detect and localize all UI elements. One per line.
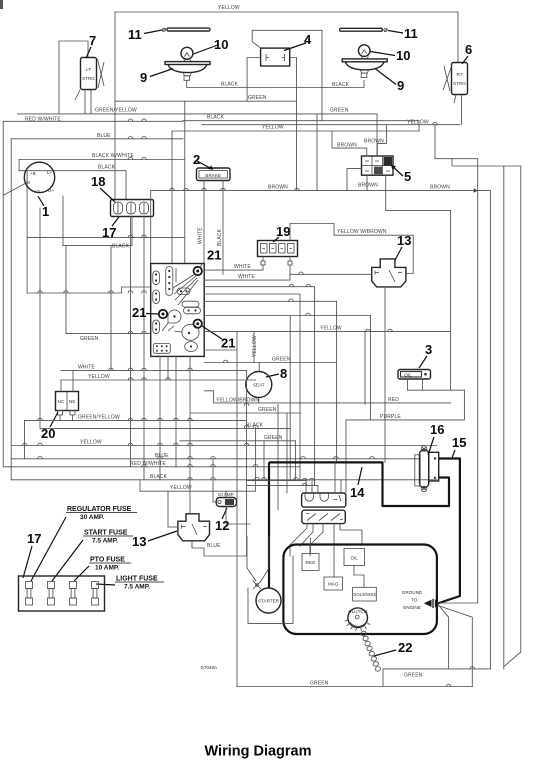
svg-text:10 AMP.: 10 AMP. <box>95 565 119 572</box>
fuse block 17 <box>19 576 105 611</box>
svg-text:1: 1 <box>42 204 49 219</box>
leader 8 <box>266 374 279 377</box>
svg-text:REGULATOR FUSE: REGULATOR FUSE <box>67 506 132 513</box>
headlamp 9 right <box>342 59 387 78</box>
svg-text:RED W/WHITE: RED W/WHITE <box>130 461 166 467</box>
svg-text:7.5 AMP.: 7.5 AMP. <box>92 538 118 545</box>
svg-text:8: 8 <box>280 366 287 381</box>
svg-text:RED W/WHITE: RED W/WHITE <box>25 117 61 123</box>
svg-text:13: 13 <box>397 233 411 248</box>
leader 4 <box>284 43 306 51</box>
svg-text:START FUSE: START FUSE <box>84 530 128 537</box>
svg-text:NC: NC <box>58 399 65 404</box>
svg-text:M: M <box>26 180 30 185</box>
wire band y286 <box>204 286 314 288</box>
connector 18/17 <box>111 200 154 217</box>
wire brown band <box>151 190 478 192</box>
wire green upper band <box>115 100 297 102</box>
wire ground fan down right 1 <box>438 605 449 669</box>
fuse label PTO <box>74 557 131 582</box>
svg-text:YELLOW: YELLOW <box>218 5 240 11</box>
wire funnel above 4 <box>252 30 322 48</box>
svg-text:GREEN: GREEN <box>404 673 423 679</box>
svg-text:11: 11 <box>404 26 418 41</box>
wire coil 22 spring <box>361 631 381 671</box>
wire bottom green B <box>237 686 472 688</box>
connector 4 <box>261 48 290 66</box>
svg-text:16: 16 <box>430 422 444 437</box>
wire reg feed <box>310 538 312 554</box>
svg-text:BROWN: BROWN <box>358 183 378 189</box>
svg-text:ENGINE: ENGINE <box>403 605 421 610</box>
leader 11 left <box>144 30 162 34</box>
wire relay top pins <box>305 481 307 493</box>
bulb 10 left <box>181 47 193 61</box>
leader 10 right <box>371 52 396 56</box>
corner mark <box>0 0 3 9</box>
wire starter frame <box>248 556 293 623</box>
svg-text:4: 4 <box>304 32 312 47</box>
leader 12 <box>222 508 227 519</box>
cam blob <box>162 310 181 331</box>
svg-text:YELLOW: YELLOW <box>407 119 429 125</box>
box REG <box>302 554 319 571</box>
wire white band lower <box>61 369 247 371</box>
svg-text:BLACK: BLACK <box>217 228 223 246</box>
connector mid right slots <box>177 288 201 314</box>
box MAG <box>324 577 343 590</box>
svg-text:LT: LT <box>86 67 91 72</box>
wire band y294 <box>204 293 300 295</box>
svg-text:2: 2 <box>193 152 200 167</box>
wire 20 bottom pins <box>59 415 61 421</box>
svg-text:18: 18 <box>91 174 105 189</box>
svg-text:YELLOW: YELLOW <box>252 335 258 357</box>
wire black band y245 <box>63 245 132 247</box>
svg-text:YELLOW W/BROWN: YELLOW W/BROWN <box>337 229 387 235</box>
svg-text:GROUND: GROUND <box>402 590 423 595</box>
leader 22 <box>374 650 396 656</box>
sensor 13 upper <box>372 259 406 287</box>
svg-text:BROWN: BROWN <box>337 143 357 149</box>
engine block outline <box>283 545 437 635</box>
svg-text:GREEN/YELLOW: GREEN/YELLOW <box>78 415 120 421</box>
svg-text:BLACK: BLACK <box>98 165 116 171</box>
wire band y293 <box>27 287 151 293</box>
wire crossover humps <box>22 119 474 687</box>
bolt 21 left <box>159 310 167 318</box>
svg-text:GREEN/YELLOW: GREEN/YELLOW <box>95 108 137 114</box>
wire white band 2 <box>204 279 290 281</box>
svg-text:13: 13 <box>132 534 146 549</box>
wire module bottom stubs <box>159 356 161 479</box>
regulator 16 <box>415 446 439 492</box>
relay top connector <box>302 493 346 507</box>
svg-text:REG: REG <box>306 560 316 565</box>
wire bus x255 <box>255 428 257 492</box>
wire purple band <box>346 390 464 420</box>
svg-text:L+: L+ <box>47 170 53 175</box>
wire bus x264 <box>263 441 265 480</box>
svg-text:BLACK: BLACK <box>150 474 168 480</box>
svg-text:RED: RED <box>388 397 399 403</box>
svg-text:NE: NE <box>69 399 75 404</box>
svg-text:12: 12 <box>215 518 229 533</box>
wire yellow band y445 <box>11 445 437 447</box>
wire right lamp stem <box>322 80 364 87</box>
svg-text:7: 7 <box>89 33 96 48</box>
svg-text:21: 21 <box>221 336 235 351</box>
bolt 21 top <box>194 267 202 275</box>
wire right bus 2 <box>452 159 504 669</box>
wire mid verticals <box>110 246 112 371</box>
svg-text:BLACK: BLACK <box>332 82 350 88</box>
wire heavy to starter <box>268 462 270 588</box>
wire red w/white upper <box>3 120 183 122</box>
headlight LT STRG loop wire <box>59 41 88 114</box>
wire 4 left pin to green <box>247 58 261 102</box>
leader 5 <box>392 166 403 176</box>
svg-text:GREEN: GREEN <box>272 357 291 363</box>
wire green band to controller <box>66 333 151 335</box>
wire 4 right pin <box>290 58 297 191</box>
svg-text:A3: A3 <box>34 189 40 194</box>
wire 12 stubs <box>225 491 227 497</box>
svg-text:7.5 AMP.: 7.5 AMP. <box>124 584 150 591</box>
svg-text:SEAT: SEAT <box>253 383 265 388</box>
svg-text:CLUTCH: CLUTCH <box>348 609 367 614</box>
vertical drops x172 x184 <box>171 131 173 264</box>
svg-text:3: 3 <box>425 342 432 357</box>
wire black band <box>18 160 20 171</box>
wire oil bottom <box>408 389 465 391</box>
wire bus x246 <box>246 370 248 556</box>
wire bottom green A <box>383 668 490 670</box>
wire blue band <box>11 138 183 140</box>
svg-text:WHITE: WHITE <box>78 364 95 370</box>
leader 13 lower <box>148 531 177 541</box>
leader 9 right <box>375 69 396 85</box>
fuse label REGULATOR <box>31 506 137 581</box>
svg-text:5: 5 <box>404 169 411 184</box>
wire black band y479 <box>11 479 437 481</box>
leader 9 left <box>150 69 173 77</box>
connector slots left column <box>153 271 160 334</box>
wire connector bottom drops <box>130 217 132 467</box>
svg-text:17: 17 <box>102 225 116 240</box>
leader 14 <box>358 467 362 485</box>
module main controller <box>151 264 205 357</box>
ground lug arrow <box>424 599 436 608</box>
svg-text:BLACK: BLACK <box>112 244 130 250</box>
box SOLENOID <box>353 587 378 601</box>
wire yellow w/brown band <box>290 224 413 274</box>
svg-text:BLUE: BLUE <box>207 543 221 549</box>
ignition switch 1 <box>3 162 54 195</box>
svg-text:BLACK: BLACK <box>221 81 239 87</box>
svg-text:6: 6 <box>465 42 472 57</box>
leader 20 <box>50 412 58 427</box>
leader 11 right <box>388 31 403 34</box>
svg-text:YELLOW/BROWN: YELLOW/BROWN <box>216 398 259 404</box>
svg-text:STARTER: STARTER <box>258 598 280 603</box>
headlamp 9 left <box>165 62 210 81</box>
wire black headlight grounds <box>187 80 322 87</box>
wire seat drop verticals <box>299 294 301 481</box>
oval small <box>185 342 198 352</box>
wire 5 left feed <box>347 169 362 191</box>
wire band y315 <box>204 315 370 317</box>
svg-text:BLACK: BLACK <box>207 115 225 121</box>
clutch <box>345 608 371 631</box>
brake switch 2 <box>197 168 231 181</box>
svg-text:WHITE: WHITE <box>234 264 251 270</box>
svg-text:14: 14 <box>350 485 365 500</box>
svg-text:PTO FUSE: PTO FUSE <box>90 557 125 564</box>
svg-text:22: 22 <box>398 640 412 655</box>
wire brown right end arrow <box>478 191 491 669</box>
svg-text:GREEN: GREEN <box>248 95 267 101</box>
turn-signal bar 11 left <box>162 28 210 31</box>
svg-text:21: 21 <box>207 248 221 263</box>
svg-text:GREEN: GREEN <box>310 681 329 687</box>
svg-text:PURPLE: PURPLE <box>380 414 401 420</box>
leader 16 <box>428 437 434 455</box>
lamp 7 LT STRG <box>75 53 104 114</box>
leader 15 <box>452 450 455 458</box>
wire brake drops <box>203 181 205 264</box>
leader 18 <box>100 188 115 202</box>
svg-text:D7048A: D7048A <box>201 665 219 670</box>
svg-text:MAG: MAG <box>328 582 339 587</box>
wire drop x317 <box>316 114 318 191</box>
wire yellow band <box>202 124 460 126</box>
svg-text:LIGHT FUSE: LIGHT FUSE <box>116 576 158 583</box>
box OIL engine <box>344 549 365 566</box>
wire relay fan out <box>290 524 307 556</box>
switch 20 <box>56 392 79 416</box>
wire heavy 16 to ground <box>438 459 460 604</box>
wire 5 top pins <box>332 131 367 156</box>
wire green band y438 <box>180 440 295 442</box>
turn-signal bar 11 right <box>340 28 389 32</box>
svg-text:10: 10 <box>214 37 228 52</box>
bolt 21 right <box>194 320 202 328</box>
text ground to engine <box>402 590 423 610</box>
wire right vertical x450 <box>450 210 452 390</box>
leader 21 bottom <box>202 326 222 339</box>
svg-text:YELLOW: YELLOW <box>80 440 102 446</box>
connector 5 <box>362 156 394 175</box>
wire red w/white band y466 <box>3 466 300 468</box>
svg-text:OIL: OIL <box>350 556 358 561</box>
wire band y301 13 bottom <box>204 300 336 302</box>
wire band y350 <box>204 349 237 351</box>
svg-text:19: 19 <box>276 224 290 239</box>
svg-text:OIL: OIL <box>404 373 412 378</box>
wire 19 pins down <box>262 265 264 270</box>
wire 13 lower stubs <box>168 526 178 528</box>
fuse label START <box>52 530 133 582</box>
relay lower connector <box>302 510 345 523</box>
wire junction drop x322 <box>321 30 323 120</box>
wire red band <box>330 402 451 404</box>
svg-text:STRG: STRG <box>453 81 466 86</box>
wire solenoid feed <box>354 566 364 588</box>
svg-text:RT: RT <box>456 72 462 77</box>
svg-text:SOLENOID: SOLENOID <box>353 592 377 597</box>
connector bottom left block <box>153 344 170 354</box>
svg-text:BROWN: BROWN <box>268 185 288 191</box>
wire green band y362 <box>204 362 336 364</box>
svg-text:G+: G+ <box>48 188 55 193</box>
wire 5 pin to right bus <box>386 175 451 210</box>
svg-text:GREEN: GREEN <box>330 108 349 114</box>
wire left bus drops <box>2 121 4 467</box>
svg-text:9: 9 <box>140 70 147 85</box>
wire green/yellow band lower <box>25 420 247 422</box>
wire yellow/brown band <box>204 391 330 403</box>
wire blue tee to fuse 12 <box>213 459 216 502</box>
leader 6 <box>462 56 468 64</box>
leader 19 <box>273 237 279 242</box>
bulb 10 right <box>358 45 370 59</box>
wire bus x287 <box>286 413 288 493</box>
wire into 13 upper <box>290 273 372 275</box>
wire white band 1 <box>204 269 263 271</box>
wire left mid vertical x40 <box>39 208 41 428</box>
leader 7 <box>86 47 91 58</box>
svg-text:YELLOW: YELLOW <box>262 124 284 130</box>
svg-text:YELLOW: YELLOW <box>320 326 342 332</box>
wire left vertical from top bus down to connector <box>114 12 116 200</box>
svg-text:20: 20 <box>41 426 55 441</box>
wire green band y413 <box>190 412 301 414</box>
leader 2 <box>197 161 212 169</box>
svg-text:30 AMP.: 30 AMP. <box>80 514 104 521</box>
svg-text:21: 21 <box>132 305 146 320</box>
svg-text:11: 11 <box>128 27 142 42</box>
seat switch 8 <box>246 363 272 403</box>
wire top yellow bus <box>115 12 458 63</box>
wire yellow band y331 <box>204 331 450 333</box>
svg-text:STRG: STRG <box>82 76 95 81</box>
sensor 13 lower <box>178 514 210 541</box>
fuse 12 <box>216 492 236 507</box>
lamp 6 RT STRG <box>443 63 468 125</box>
svg-text:GREEN: GREEN <box>258 407 277 413</box>
wire yellow band y493 <box>140 490 256 492</box>
connector 19 <box>258 241 298 266</box>
wire verticals x66 <box>65 246 67 334</box>
svg-text:9: 9 <box>397 78 404 93</box>
leader 17 fuse block <box>23 546 32 578</box>
svg-text:GREEN: GREEN <box>80 336 99 342</box>
wire yellow band lower <box>61 379 256 381</box>
wire bands into relay <box>247 480 306 482</box>
svg-text:Wiring Diagram: Wiring Diagram <box>204 744 311 760</box>
svg-text:TO: TO <box>411 598 418 603</box>
svg-text:BROWN: BROWN <box>364 139 384 145</box>
leader 21 left <box>146 313 158 316</box>
wire ground fan from bus 478 <box>438 596 478 603</box>
leader 17 <box>112 217 119 226</box>
svg-text:BLUE: BLUE <box>97 133 111 139</box>
leader 3 <box>419 356 427 368</box>
svg-text:WHITE: WHITE <box>238 274 255 280</box>
svg-text:GREEN: GREEN <box>264 435 283 441</box>
wire black w/white band <box>19 159 184 161</box>
leader 10 left <box>194 45 220 55</box>
oil sensor 3 <box>398 370 431 391</box>
starter funnel <box>247 536 269 589</box>
wire 5 bottom pins <box>366 175 368 190</box>
leader 13 upper <box>395 247 402 260</box>
wire blue band y458 <box>11 458 419 460</box>
wire black band y427 <box>40 428 290 430</box>
wire ground fan down right 2 <box>438 606 472 687</box>
svg-text:BROWN: BROWN <box>430 185 450 191</box>
svg-text:17: 17 <box>27 531 41 546</box>
oval large <box>174 324 199 340</box>
leader 1 <box>38 196 44 206</box>
connector strip top middle <box>166 267 176 296</box>
wire bus x278 <box>277 405 279 511</box>
wire bus x296 <box>294 441 296 481</box>
svg-text:+B: +B <box>30 171 36 176</box>
motor starter <box>256 588 281 613</box>
wire heavy battery run <box>269 462 449 506</box>
wire black band upper <box>183 120 419 122</box>
wire 20 top pins <box>72 370 74 391</box>
svg-text:YELLOW: YELLOW <box>170 485 192 491</box>
wire green/yellow band <box>18 113 378 115</box>
svg-text:15: 15 <box>452 435 466 450</box>
wire bus x237 <box>236 332 238 687</box>
leader 21 top fan <box>173 263 203 305</box>
svg-text:YELLOW: YELLOW <box>88 374 110 380</box>
svg-text:WHITE: WHITE <box>198 227 204 244</box>
svg-text:BRAKE: BRAKE <box>205 173 221 178</box>
wire band y131 to right side bus <box>172 130 419 132</box>
svg-text:10: 10 <box>396 48 410 63</box>
fuse label LIGHT <box>96 576 164 591</box>
